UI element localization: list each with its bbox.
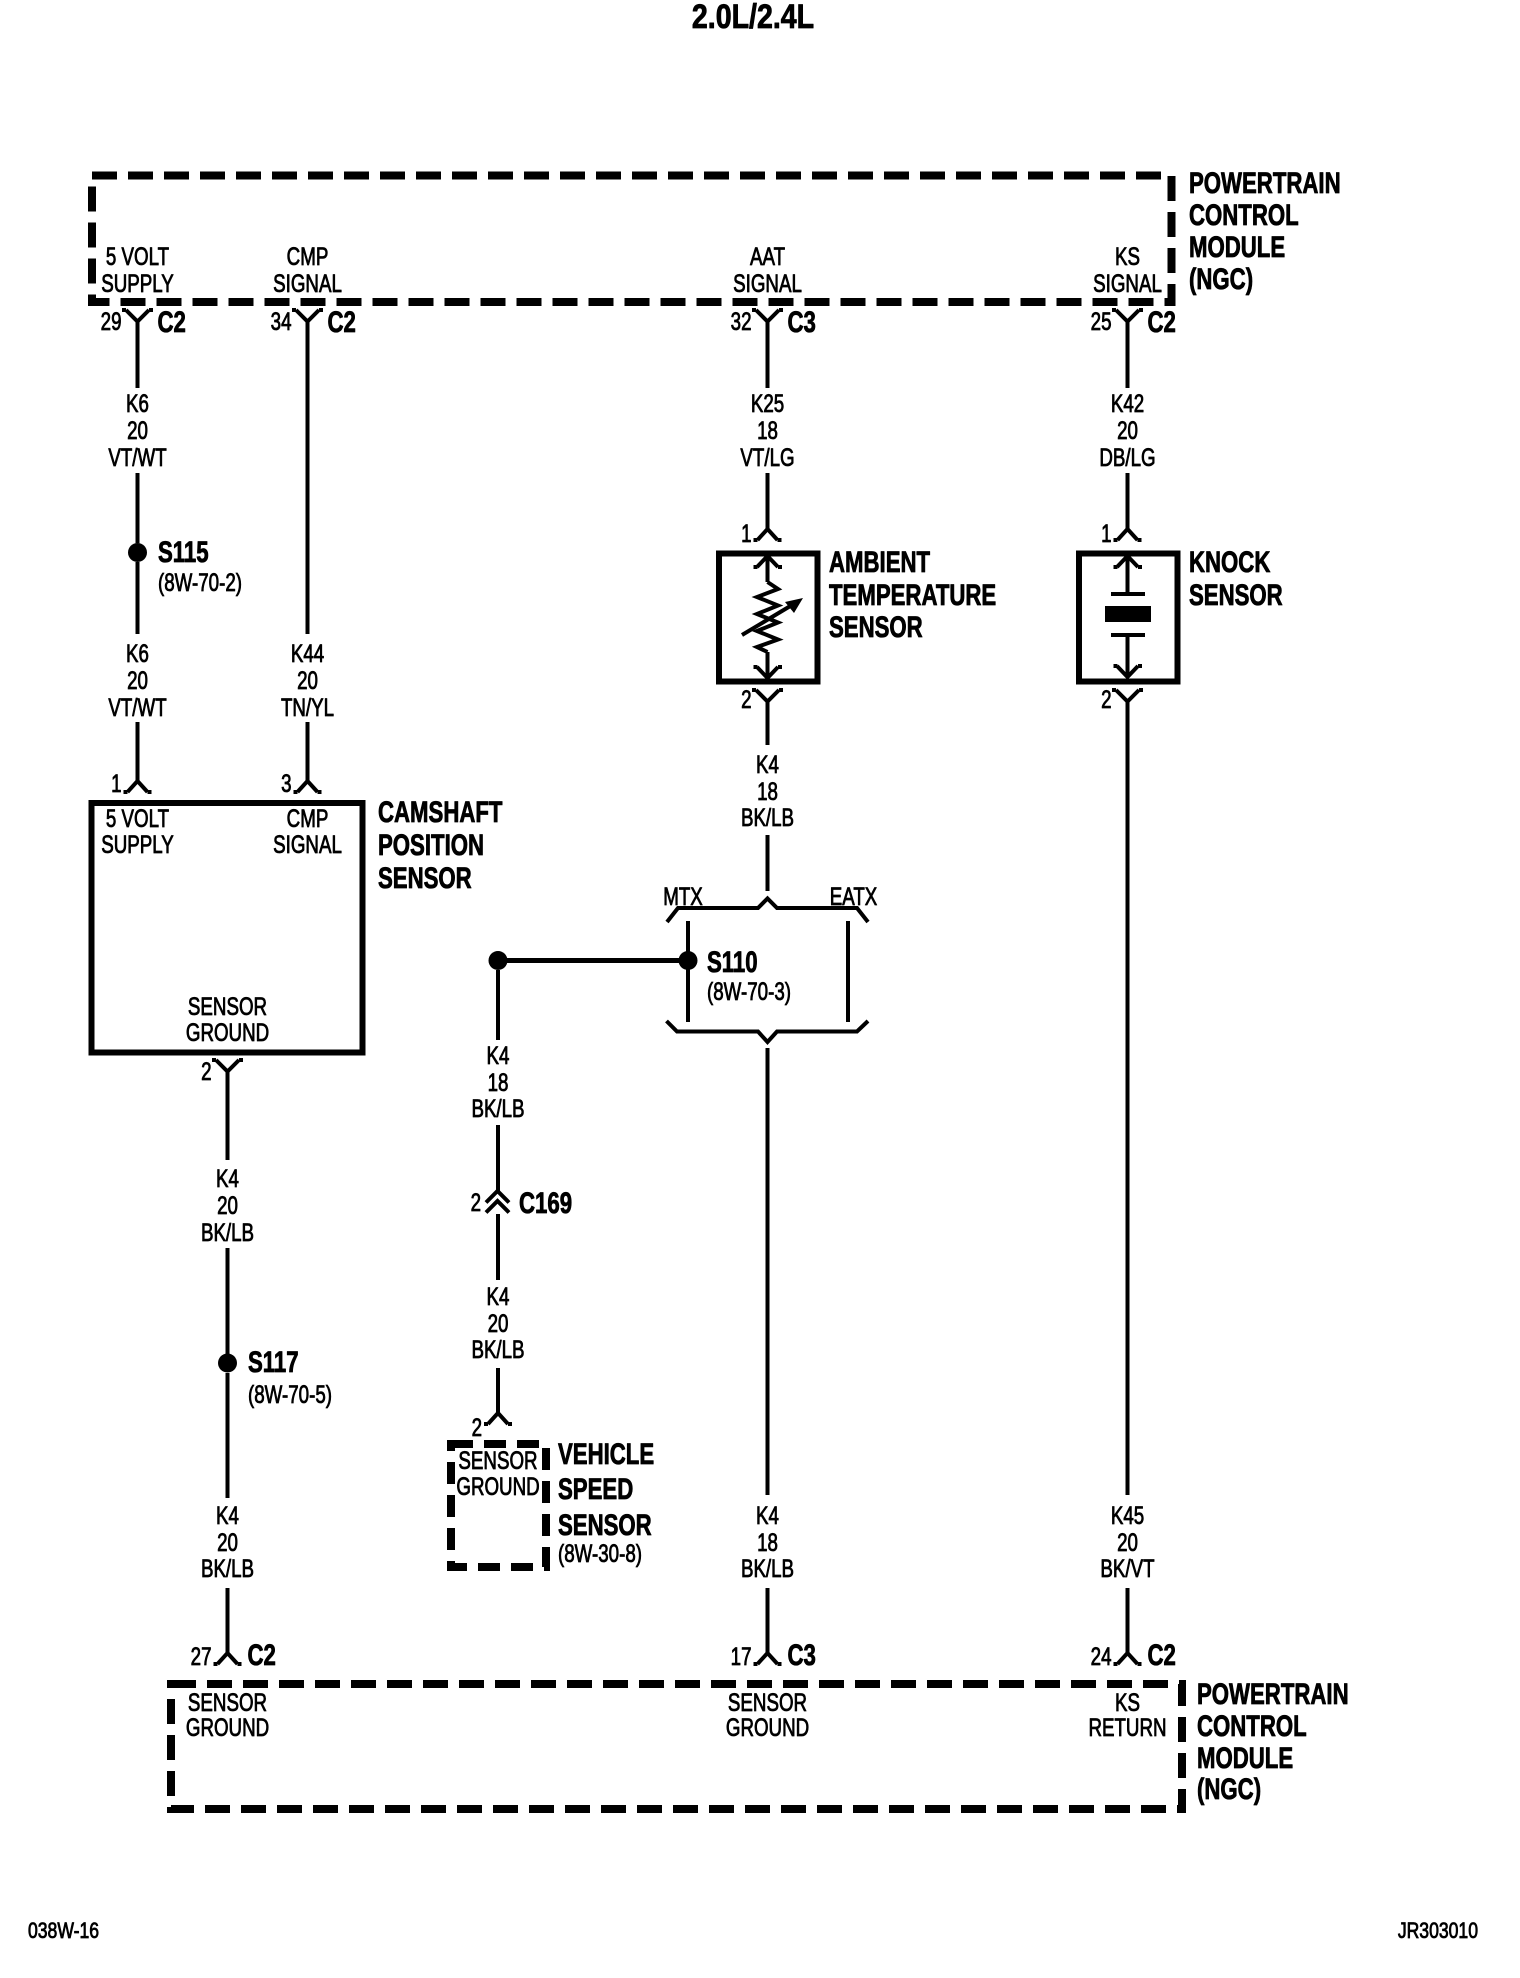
svg-text:K42: K42	[1111, 389, 1144, 417]
svg-text:VT/WT: VT/WT	[108, 693, 166, 721]
svg-text:(8W-70-3): (8W-70-3)	[707, 977, 791, 1005]
wire K4 18 BK/LB long segment to PCM	[766, 1048, 770, 1495]
svg-text:K4: K4	[487, 1282, 510, 1310]
wire segment to connector C169	[496, 1125, 500, 1192]
connector pin 27 C2 (sensor ground in)	[191, 1638, 276, 1672]
svg-text:20: 20	[127, 666, 148, 694]
svg-text:CAMSHAFT: CAMSHAFT	[378, 795, 502, 829]
svg-text:3: 3	[281, 769, 291, 797]
svg-text:BK/LB: BK/LB	[741, 803, 794, 831]
svg-text:DB/LG: DB/LG	[1099, 443, 1155, 471]
svg-text:POSITION: POSITION	[378, 828, 484, 862]
svg-text:SENSOR: SENSOR	[378, 861, 472, 895]
wire label K4 20 BK/LB (lower)	[201, 1501, 254, 1582]
svg-text:POWERTRAIN: POWERTRAIN	[1189, 166, 1341, 200]
wire segment below splice S117	[226, 1373, 230, 1498]
svg-text:20: 20	[297, 666, 318, 694]
svg-text:CMP: CMP	[287, 804, 329, 832]
svg-text:SIGNAL: SIGNAL	[1093, 269, 1162, 297]
wire label K42 20 DB/LG	[1099, 389, 1155, 471]
svg-text:24: 24	[1091, 1642, 1112, 1670]
wire segment to PCM pin 17	[766, 1588, 770, 1653]
svg-text:KNOCK: KNOCK	[1189, 545, 1270, 579]
svg-text:RETURN: RETURN	[1088, 1713, 1166, 1741]
wire segment into splice S117	[226, 1248, 230, 1354]
component title CAMSHAFT POSITION SENSOR	[378, 795, 502, 895]
svg-text:18: 18	[488, 1068, 509, 1096]
svg-text:SIGNAL: SIGNAL	[733, 269, 802, 297]
svg-text:K4: K4	[756, 1501, 779, 1529]
svg-text:S117: S117	[248, 1345, 299, 1379]
svg-text:CONTROL: CONTROL	[1189, 198, 1299, 232]
vehicle speed sensor box (dashed)	[451, 1444, 546, 1567]
MTX branch wire	[686, 921, 690, 1022]
pin 2 of vehicle speed sensor	[472, 1413, 512, 1442]
svg-text:(NGC): (NGC)	[1189, 262, 1253, 296]
connector pin 17 C3 (sensor ground in)	[731, 1638, 816, 1672]
svg-text:17: 17	[731, 1642, 752, 1670]
wire from S110 to vehicle speed sensor branch	[498, 958, 688, 963]
svg-text:2: 2	[1101, 685, 1111, 713]
svg-text:C169: C169	[519, 1186, 572, 1220]
svg-text:SIGNAL: SIGNAL	[273, 830, 342, 858]
svg-text:1: 1	[1101, 519, 1111, 547]
PCM pin label 5 VOLT SUPPLY	[101, 242, 174, 297]
wire K42 20 DB/LG segment	[1126, 322, 1130, 389]
svg-text:(8W-30-8): (8W-30-8)	[558, 1539, 642, 1567]
svg-text:VT/WT: VT/WT	[108, 443, 166, 471]
in-line connector C169 (pin 2)	[471, 1186, 572, 1220]
svg-text:20: 20	[488, 1309, 509, 1337]
svg-text:BK/LB: BK/LB	[471, 1335, 524, 1363]
camshaft sensor label SENSOR GROUND	[186, 992, 269, 1046]
wire segment to PCM pin 27	[226, 1588, 230, 1653]
svg-text:2: 2	[472, 1413, 482, 1441]
svg-text:TEMPERATURE: TEMPERATURE	[829, 578, 996, 612]
svg-text:VEHICLE: VEHICLE	[558, 1437, 654, 1471]
svg-text:S115: S115	[158, 535, 209, 569]
svg-text:SENSOR: SENSOR	[829, 610, 923, 644]
PCM pin label KS SIGNAL	[1093, 242, 1162, 297]
svg-text:MODULE: MODULE	[1189, 230, 1285, 264]
connector pin 32 C3 (AAT signal out)	[731, 305, 816, 339]
PCM bottom module box (dashed outline)	[171, 1684, 1182, 1809]
camshaft sensor label 5 VOLT SUPPLY	[101, 804, 174, 858]
junction dot on sensor-ground tap	[489, 951, 508, 970]
pin 1 of camshaft position sensor	[111, 769, 151, 797]
component title AMBIENT TEMPERATURE SENSOR	[829, 545, 996, 644]
svg-text:K4: K4	[216, 1164, 239, 1192]
AAT thermistor zigzag element	[742, 582, 803, 652]
wire K6 20 VT/WT upper segment	[136, 322, 140, 389]
svg-text:5 VOLT: 5 VOLT	[106, 242, 169, 270]
wire label K4 18 BK/LB (below AAT)	[741, 750, 794, 831]
svg-text:18: 18	[757, 1528, 778, 1556]
svg-text:C2: C2	[1148, 1638, 1176, 1672]
svg-text:20: 20	[217, 1191, 238, 1219]
wire label K45 20 BK/VT	[1100, 1501, 1154, 1582]
svg-text:CMP: CMP	[287, 242, 329, 270]
svg-text:MODULE: MODULE	[1197, 1741, 1293, 1775]
svg-text:2: 2	[201, 1057, 211, 1085]
svg-text:25: 25	[1091, 307, 1112, 335]
svg-text:SIGNAL: SIGNAL	[273, 269, 342, 297]
svg-text:JR303010: JR303010	[1398, 1919, 1478, 1943]
svg-text:K44: K44	[291, 639, 324, 667]
wire segment to PCM pin 24	[1126, 1588, 1130, 1653]
PCM pin label SENSOR GROUND (pin 27)	[186, 1688, 269, 1741]
svg-text:18: 18	[757, 416, 778, 444]
svg-text:2.0L/2.4L: 2.0L/2.4L	[692, 0, 814, 36]
svg-text:GROUND: GROUND	[186, 1713, 269, 1741]
svg-text:2: 2	[741, 685, 751, 713]
svg-text:C2: C2	[248, 1638, 276, 1672]
AAT internal top arrow	[754, 556, 783, 582]
svg-text:GROUND: GROUND	[726, 1713, 809, 1741]
svg-text:K45: K45	[1111, 1501, 1144, 1529]
split brace top (MTX/EATX)	[667, 899, 868, 923]
PCM pin label KS RETURN (pin 24)	[1088, 1688, 1166, 1741]
svg-text:(NGC): (NGC)	[1197, 1772, 1261, 1806]
ambient temperature sensor box	[719, 554, 818, 682]
svg-text:C3: C3	[788, 1638, 816, 1672]
pin 1 of knock sensor	[1101, 519, 1141, 547]
wire label K25 18 VT/LG	[740, 389, 794, 471]
svg-text:SUPPLY: SUPPLY	[101, 830, 174, 858]
svg-text:1: 1	[741, 519, 751, 547]
svg-text:SPEED: SPEED	[558, 1472, 633, 1506]
knock sensor box	[1079, 554, 1178, 682]
svg-text:29: 29	[101, 307, 122, 335]
svg-text:AMBIENT: AMBIENT	[829, 545, 930, 579]
wire K4 18 BK/LB segment below AAT sensor	[766, 702, 770, 746]
splice S115	[128, 535, 242, 597]
wire label K6 20 VT/WT (upper)	[108, 389, 166, 471]
pin 2 of camshaft position sensor (sensor ground out)	[201, 1057, 243, 1085]
wire segment to camshaft sensor pin 1	[136, 722, 140, 781]
svg-text:34: 34	[271, 307, 292, 335]
VSS label SENSOR GROUND	[456, 1446, 539, 1500]
pin 2 of knock sensor	[1101, 685, 1143, 713]
svg-text:K4: K4	[487, 1041, 510, 1069]
svg-text:BK/LB: BK/LB	[201, 1218, 254, 1246]
wire label K4 20 BK/LB (upper)	[201, 1164, 254, 1246]
PCM top module box (powertrain control module, dashed outline)	[92, 176, 1172, 303]
knock sensor internal bottom arrow	[1114, 635, 1143, 677]
svg-text:C2: C2	[328, 305, 356, 339]
wire label K44 20 TN/YL	[281, 639, 334, 721]
svg-text:1: 1	[111, 769, 121, 797]
camshaft position sensor box	[92, 803, 363, 1053]
wire segment to vehicle speed sensor pin 2	[496, 1368, 500, 1413]
pin 2 of ambient temperature sensor	[741, 685, 783, 713]
svg-text:C2: C2	[158, 305, 186, 339]
svg-text:27: 27	[191, 1642, 212, 1670]
PCM pin label CMP SIGNAL	[273, 242, 342, 297]
wire segment below C169	[496, 1214, 500, 1280]
wire label K4 20 BK/LB (below C169)	[471, 1282, 524, 1363]
EATX branch label	[830, 882, 878, 910]
wire K25 18 VT/LG segment	[766, 322, 770, 389]
svg-text:K25: K25	[751, 389, 784, 417]
svg-text:038W-16: 038W-16	[28, 1919, 99, 1943]
svg-text:(8W-70-5): (8W-70-5)	[248, 1380, 332, 1408]
pin 1 of ambient temperature sensor	[741, 519, 781, 547]
knock sensor piezo element	[1105, 594, 1151, 635]
svg-text:SENSOR: SENSOR	[558, 1508, 652, 1542]
svg-text:SUPPLY: SUPPLY	[101, 269, 174, 297]
splice S110	[679, 945, 791, 1006]
PCM pin label AAT SIGNAL	[733, 242, 802, 297]
wire segment into splice S115	[136, 473, 140, 543]
AAT internal bottom arrow	[754, 652, 783, 678]
svg-text:20: 20	[1117, 1528, 1138, 1556]
wire K4 20 BK/LB segment below camshaft sensor	[226, 1072, 230, 1161]
svg-text:20: 20	[217, 1528, 238, 1556]
svg-text:SENSOR: SENSOR	[1189, 578, 1283, 612]
svg-text:18: 18	[757, 777, 778, 805]
footer sheet number 038W-16	[28, 1919, 99, 1943]
svg-text:K4: K4	[216, 1501, 239, 1529]
svg-text:GROUND: GROUND	[456, 1472, 539, 1500]
svg-text:BK/LB: BK/LB	[201, 1554, 254, 1582]
knock sensor internal top arrow	[1114, 556, 1143, 594]
connector pin 24 C2 (KS return in)	[1091, 1638, 1176, 1672]
wire K44 20 TN/YL segment	[306, 322, 310, 635]
svg-text:20: 20	[1117, 416, 1138, 444]
svg-text:VT/LG: VT/LG	[740, 443, 794, 471]
svg-text:S110: S110	[707, 945, 758, 979]
PCM pin label SENSOR GROUND (pin 17)	[726, 1688, 809, 1741]
svg-text:C2: C2	[1148, 305, 1176, 339]
wire K45 20 BK/VT long segment	[1126, 702, 1130, 1496]
svg-text:BK/VT: BK/VT	[1100, 1554, 1154, 1582]
footer drawing number JR303010	[1398, 1919, 1478, 1943]
PCM top title POWERTRAIN CONTROL MODULE (NGC)	[1189, 166, 1341, 296]
PCM bottom title POWERTRAIN CONTROL MODULE (NGC)	[1197, 1677, 1349, 1806]
svg-text:POWERTRAIN: POWERTRAIN	[1197, 1677, 1349, 1711]
svg-text:AAT: AAT	[750, 242, 785, 270]
svg-text:GROUND: GROUND	[186, 1018, 269, 1046]
component title VEHICLE SPEED SENSOR (8W-30-8)	[558, 1437, 654, 1568]
svg-text:5 VOLT: 5 VOLT	[106, 804, 169, 832]
svg-text:(8W-70-2): (8W-70-2)	[158, 568, 242, 596]
pin 3 of camshaft position sensor	[281, 769, 321, 797]
svg-text:K4: K4	[756, 750, 779, 778]
wire segment to knock sensor pin 1	[1126, 473, 1130, 529]
connector pin 29 C2 (5 volt supply out)	[101, 305, 186, 339]
wire segment below splice S115	[136, 562, 140, 634]
svg-text:KS: KS	[1115, 242, 1140, 270]
svg-text:2: 2	[471, 1188, 481, 1216]
svg-text:SENSOR: SENSOR	[188, 992, 267, 1020]
split brace bottom (rejoin)	[667, 1021, 869, 1042]
svg-text:BK/LB: BK/LB	[741, 1554, 794, 1582]
wire label K4 18 BK/LB (VSS branch)	[471, 1041, 524, 1122]
wire label K6 20 VT/WT (lower)	[108, 639, 166, 721]
wire segment to camshaft sensor pin 3	[306, 722, 310, 781]
svg-text:C3: C3	[788, 305, 816, 339]
wire segment to AAT sensor pin 1	[766, 473, 770, 529]
connector pin 25 C2 (KS signal out)	[1091, 305, 1176, 339]
svg-text:SENSOR: SENSOR	[458, 1446, 537, 1474]
svg-text:K6: K6	[126, 639, 149, 667]
svg-text:CONTROL: CONTROL	[1197, 1709, 1307, 1743]
svg-text:32: 32	[731, 307, 752, 335]
wire segment into MTX/EATX split	[766, 835, 770, 891]
component title KNOCK SENSOR	[1189, 545, 1283, 612]
svg-text:BK/LB: BK/LB	[471, 1094, 524, 1122]
MTX branch label	[663, 882, 703, 910]
EATX branch wire	[846, 921, 850, 1022]
wire K4 18 BK/LB segment below tap dot	[496, 970, 500, 1040]
svg-text:20: 20	[127, 416, 148, 444]
wire label K4 18 BK/LB (lower)	[741, 1501, 794, 1582]
svg-text:TN/YL: TN/YL	[281, 693, 334, 721]
camshaft sensor label CMP SIGNAL	[273, 804, 342, 858]
svg-text:K6: K6	[126, 389, 149, 417]
connector pin 34 C2 (CMP signal out)	[271, 305, 356, 339]
splice S117	[218, 1345, 332, 1409]
title 2.0L/2.4L	[692, 0, 814, 36]
